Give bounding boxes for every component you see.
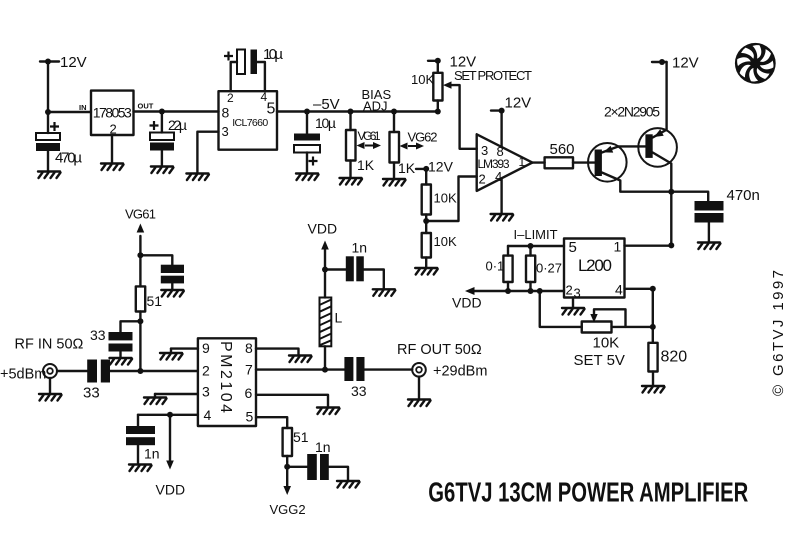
svg-text:1n: 1n [315,439,331,455]
svg-text:12V: 12V [428,159,454,175]
svg-text:10K: 10K [434,191,457,206]
svg-text:SET PROTECT: SET PROTECT [454,68,532,83]
svg-text:VDD: VDD [308,221,338,237]
svg-text:1n: 1n [352,240,368,256]
svg-text:3: 3 [481,143,488,158]
svg-text:SET 5V: SET 5V [574,352,625,369]
svg-text:3: 3 [202,384,210,400]
svg-text:2: 2 [479,172,486,187]
svg-text:1K: 1K [357,157,375,173]
svg-text:+5dBm: +5dBm [0,367,46,383]
svg-text:OUT: OUT [138,102,154,111]
svg-text:3: 3 [574,286,581,301]
svg-text:1K: 1K [398,160,416,176]
svg-text:10µ: 10µ [315,115,336,131]
svg-text:470n: 470n [727,187,760,204]
svg-text:–5V: –5V [313,96,340,113]
svg-text:2×2N2905: 2×2N2905 [604,104,660,120]
svg-text:4: 4 [204,407,212,423]
svg-text:8: 8 [222,105,230,121]
svg-text:22µ: 22µ [168,117,187,133]
svg-text:10K: 10K [411,72,434,87]
svg-text:ADJ: ADJ [363,99,388,114]
svg-text:I–LIMIT: I–LIMIT [514,227,558,242]
svg-text:10µ: 10µ [263,46,283,63]
svg-text:10K: 10K [593,335,620,352]
svg-text:RF IN 50Ω: RF IN 50Ω [15,337,84,353]
svg-text:ICL7660: ICL7660 [232,117,268,129]
svg-text:2: 2 [110,122,117,137]
svg-text:L200: L200 [578,256,612,275]
svg-text:VDD: VDD [452,295,482,311]
svg-text:33: 33 [83,385,100,402]
svg-text:VG61: VG61 [358,129,381,143]
svg-text:470µ: 470µ [55,150,82,167]
svg-text:33: 33 [90,327,106,343]
svg-text:0·1: 0·1 [486,259,505,274]
svg-text:560: 560 [550,141,575,158]
svg-text:4: 4 [495,169,502,184]
svg-text:51: 51 [293,429,309,445]
svg-text:2: 2 [227,91,234,105]
svg-text:3: 3 [222,124,229,139]
svg-text:IN: IN [79,103,87,112]
svg-text:VDD: VDD [156,482,186,498]
svg-text:VG61: VG61 [125,207,156,222]
svg-text:178053: 178053 [93,105,132,121]
svg-text:1: 1 [519,155,526,169]
svg-text:12V: 12V [672,55,699,72]
svg-text:2: 2 [202,363,210,379]
svg-text:1n: 1n [144,446,160,462]
svg-text:RF OUT 50Ω: RF OUT 50Ω [397,342,482,358]
svg-text:33: 33 [351,383,367,399]
svg-text:VGG2: VGG2 [270,502,306,517]
svg-text:7: 7 [245,362,253,378]
svg-text:51: 51 [147,293,163,309]
svg-text:12V: 12V [60,54,87,71]
svg-text:0·27: 0·27 [536,261,562,276]
svg-text:12V: 12V [505,95,532,112]
svg-text:LM393: LM393 [478,157,510,171]
svg-text:5: 5 [267,101,276,118]
svg-text:6: 6 [245,385,253,401]
svg-text:5: 5 [246,409,254,425]
svg-text:820: 820 [661,349,688,366]
svg-text:10K: 10K [434,234,457,249]
svg-text:G6TVJ 13CM POWER AMPLIFIER: G6TVJ 13CM POWER AMPLIFIER [428,477,748,508]
svg-text:VG62: VG62 [408,130,438,145]
svg-text:L: L [335,310,343,326]
svg-text:4: 4 [615,282,623,298]
svg-text:+29dBm: +29dBm [433,364,487,380]
svg-text:8: 8 [245,340,253,356]
svg-text:9: 9 [202,340,210,356]
svg-text:2: 2 [566,283,573,298]
svg-text:1: 1 [614,239,622,255]
svg-text:5: 5 [569,239,577,256]
